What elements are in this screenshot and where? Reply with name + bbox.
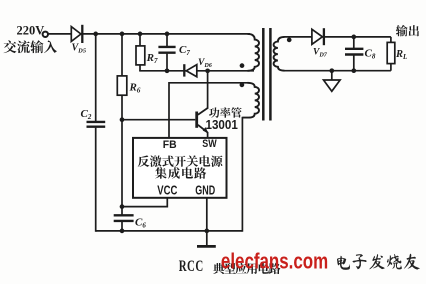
label RL (395, 49, 407, 61)
label C8 (365, 48, 376, 61)
terminal: AC input (43, 32, 48, 37)
resistor R6 (117, 34, 127, 120)
label VD7 (313, 48, 328, 59)
svg-text:R7: R7 (146, 52, 158, 65)
label C6 (135, 217, 146, 230)
junction node: VCC/C6 (120, 204, 125, 209)
svg-text:RL: RL (395, 49, 407, 61)
label IC line2 (集成电路) (155, 167, 206, 179)
caption RCC (179, 257, 204, 275)
junction node: C6 bottom rail (120, 229, 125, 234)
svg-text:220V: 220V (17, 24, 45, 38)
junction node: C7 top (165, 32, 170, 37)
junction node: output ground (329, 68, 334, 73)
svg-text:FB: FB (163, 139, 177, 151)
polarity dot (secondary) (287, 38, 292, 43)
wire: emitter to SW pin (207, 132, 209, 138)
wire: collector (207, 71, 209, 108)
junction node: C8 bottom (351, 68, 356, 73)
resistor R7 (136, 34, 145, 71)
junction node: C2 top (93, 32, 98, 37)
watermark 电子发烧友 (337, 254, 420, 270)
transformer T1 primary winding (248, 34, 260, 71)
caption 典型应用电路 (213, 263, 281, 274)
svg-text:R6: R6 (129, 82, 141, 95)
svg-text:VD6: VD6 (198, 58, 213, 69)
svg-text:13001: 13001 (206, 118, 239, 132)
label 220V (17, 24, 45, 38)
pin label VCC (157, 184, 177, 198)
ground (output) (324, 71, 341, 92)
label R6 (129, 82, 141, 95)
junction node: collector (205, 68, 210, 73)
capacitor C2 (87, 34, 106, 232)
svg-text:VD7: VD7 (313, 48, 328, 59)
ground (IC) (197, 245, 216, 248)
label 功率管 (209, 107, 242, 118)
svg-text:C7: C7 (179, 44, 190, 57)
polarity dot (feedback) (240, 83, 245, 88)
svg-text:elecfans.com: elecfans.com (221, 250, 328, 275)
svg-text:C6: C6 (135, 217, 146, 230)
transistor Q1 (13001) (197, 108, 209, 134)
svg-text:VD5: VD5 (72, 43, 87, 55)
pin label GND (195, 184, 215, 198)
label C2 (81, 108, 92, 121)
wire: R6 node down to C6 (121, 120, 123, 215)
label 13001 (206, 118, 239, 132)
svg-text:C8: C8 (365, 48, 376, 61)
label VD6 (198, 58, 213, 69)
label R7 (146, 52, 158, 65)
label C7 (179, 44, 190, 57)
diode VD6 (184, 64, 197, 77)
wire: secondary bottom (284, 70, 391, 72)
capacitor C8 (345, 37, 363, 71)
junction node: base/R6 (120, 117, 125, 122)
label output (输出) (396, 25, 419, 37)
pin label SW (202, 138, 217, 150)
capacitor C7 (158, 34, 175, 71)
wire: VCC pin (121, 198, 167, 207)
svg-text:VCC: VCC (157, 184, 177, 198)
junction node: GND rail (204, 229, 209, 234)
junction node: R7 top (138, 32, 143, 37)
junction node: R6 top (120, 32, 125, 37)
diode VD7 (312, 28, 324, 45)
label IC line1 (反激式开关电源) (138, 155, 223, 167)
wire: snubber node to primary bottom (139, 70, 254, 72)
svg-text:GND: GND (195, 184, 215, 198)
wire: secondary top (284, 36, 391, 38)
wire: GND pin to ground (206, 198, 208, 246)
wire: feedback winding to FB pin (169, 83, 248, 137)
label VD5 (72, 43, 87, 55)
junction node: C7 bottom (165, 68, 170, 73)
svg-text:RCC: RCC (179, 257, 204, 275)
wire: base (121, 119, 195, 121)
resistor RL (387, 37, 395, 71)
svg-text:C2: C2 (81, 108, 92, 121)
watermark elecfans.com (221, 250, 328, 275)
wire: bottom rail (96, 230, 243, 232)
diode VD5 (71, 25, 82, 43)
pin label FB (163, 139, 177, 151)
transformer T1 feedback winding (242, 83, 259, 118)
transformer core (263, 28, 270, 121)
IC U1 flyback switching controller box (133, 138, 227, 198)
transformer T1 secondary winding (274, 37, 285, 71)
junction node: C8 top (351, 35, 356, 40)
wire: top rail (48, 33, 250, 35)
polarity dot (primary) (240, 63, 245, 68)
capacitor C6 (114, 215, 134, 231)
wire: feedback winding bottom (241, 117, 243, 232)
label AC input (交流输入) (4, 40, 57, 53)
svg-text:SW: SW (202, 138, 217, 150)
